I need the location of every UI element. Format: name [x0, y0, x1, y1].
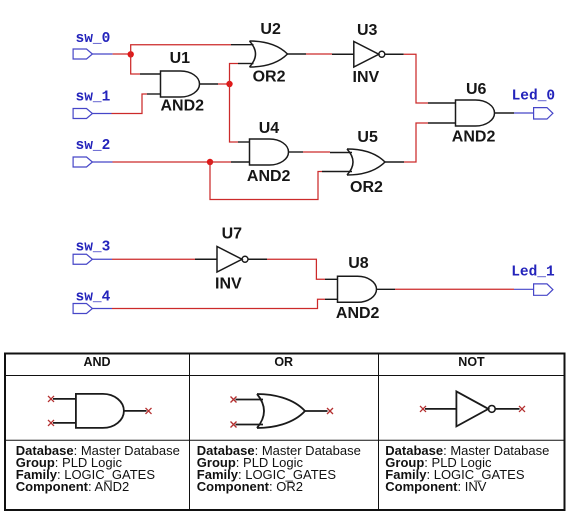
- table NOT column text: [385, 443, 549, 494]
- node J2 junction dot: [226, 81, 232, 87]
- pin U6 A stub: [428, 102, 456, 104]
- svg-text:U6: U6: [466, 81, 487, 98]
- label OR2 of U2: [253, 69, 286, 86]
- gate U5 OR2 body: [347, 149, 385, 175]
- svg-text:sw_2: sw_2: [76, 138, 111, 154]
- svg-text:OR: OR: [274, 355, 293, 369]
- label AND2 of U4: [247, 168, 291, 185]
- gate U3 INV body: [354, 42, 385, 68]
- table OR pin X marks: [231, 397, 334, 428]
- output connector Led_0: [534, 108, 553, 119]
- pin U2 A stub: [231, 44, 254, 46]
- label AND2 of U1: [161, 97, 205, 114]
- label INV of U3: [353, 69, 380, 86]
- svg-text:sw_4: sw_4: [76, 289, 111, 305]
- wire sw_2 to node J3: [113, 161, 211, 163]
- gate U1 AND2 body: [161, 71, 200, 97]
- label AND2 of U6: [452, 128, 496, 145]
- svg-text:AND2: AND2: [247, 168, 291, 185]
- svg-text:sw_0: sw_0: [76, 31, 111, 47]
- table NOT pin X marks: [420, 406, 525, 412]
- gate U8 AND2 body: [338, 276, 377, 302]
- pin U8 A stub: [325, 278, 338, 280]
- svg-text:Led_0: Led_0: [512, 88, 556, 104]
- wire J3 to U4 input B: [210, 161, 231, 163]
- pin U4 output stub: [289, 151, 304, 153]
- label INV of U7: [215, 276, 242, 293]
- input connector sw_4: [73, 304, 112, 314]
- pin U6 B stub: [428, 122, 456, 124]
- pin U4 B stub: [231, 161, 250, 163]
- wire J1 to U2 input A: [131, 45, 231, 55]
- input connector sw_0: [73, 49, 113, 59]
- label OR2 of U5: [350, 179, 383, 196]
- pin Led_1 connector stub: [514, 288, 534, 290]
- wire U4 to U5 input A: [303, 151, 330, 153]
- table column divider 1: [189, 354, 191, 511]
- node J1 junction dot: [128, 51, 134, 57]
- pin U5 output stub: [385, 161, 404, 163]
- pin U3 output stub: [385, 53, 404, 55]
- label U3: [357, 22, 378, 39]
- table symbol row divider: [5, 439, 565, 441]
- pin U1 output stub: [200, 83, 219, 85]
- wire J3 to U5 input B: [210, 162, 322, 200]
- svg-text:sw_3: sw_3: [76, 239, 111, 255]
- table AND pin X marks: [48, 396, 152, 426]
- svg-text:Component: AND2: Component: AND2: [16, 479, 129, 494]
- header label OR: [274, 355, 293, 369]
- table outer border: [5, 354, 565, 511]
- wire J1 to U1 input A: [131, 54, 140, 74]
- table column divider 2: [378, 354, 380, 511]
- wire sw_3 to U7: [112, 258, 195, 260]
- pin U3 input stub: [332, 53, 354, 55]
- input connector sw_1: [73, 109, 111, 119]
- label U1: [170, 50, 191, 67]
- pin U6 output stub: [495, 112, 515, 114]
- label Led_1: [511, 265, 555, 281]
- wire U2 to U3: [306, 53, 332, 55]
- svg-text:sw_1: sw_1: [76, 89, 111, 105]
- pin U5 A stub: [330, 152, 352, 154]
- wire J2 to U2 input B: [230, 64, 239, 85]
- svg-text:U2: U2: [260, 21, 281, 38]
- gate U4 AND2 body: [250, 139, 289, 165]
- pin U1 B stub: [147, 93, 161, 95]
- svg-text:AND2: AND2: [336, 305, 380, 322]
- pin Led_0 connector stub: [514, 112, 534, 114]
- svg-text:INV: INV: [353, 69, 380, 86]
- table AND symbol: [53, 394, 147, 428]
- table header divider: [5, 375, 565, 377]
- svg-text:U5: U5: [357, 129, 378, 146]
- pin U5 B stub: [322, 171, 352, 173]
- svg-text:INV: INV: [215, 276, 242, 293]
- svg-text:NOT: NOT: [458, 355, 485, 369]
- label U7: [222, 226, 243, 243]
- input connector sw_3: [73, 254, 112, 264]
- table NOT symbol: [425, 391, 520, 426]
- label Led_0: [512, 88, 556, 104]
- label U8: [348, 255, 369, 272]
- wire U7 to U8 input A: [267, 259, 325, 279]
- label sw_4: [76, 289, 111, 305]
- label sw_2: [76, 138, 111, 154]
- svg-text:U4: U4: [259, 120, 280, 137]
- svg-text:Component: OR2: Component: OR2: [197, 479, 303, 494]
- pin U2 output stub: [288, 53, 307, 55]
- svg-text:U3: U3: [357, 22, 378, 39]
- svg-text:U8: U8: [348, 255, 369, 272]
- pin U7 output stub: [248, 258, 267, 260]
- label sw_3: [76, 239, 111, 255]
- pin U8 output stub: [377, 288, 396, 290]
- node J3 junction dot: [207, 159, 213, 165]
- svg-text:OR2: OR2: [253, 69, 286, 86]
- gate U2 OR2 body: [250, 41, 288, 67]
- label U6: [466, 81, 487, 98]
- wire U8 to Led_1: [395, 288, 514, 290]
- svg-text:U1: U1: [170, 50, 191, 67]
- label U5: [357, 129, 378, 146]
- label U4: [259, 120, 280, 137]
- svg-text:OR2: OR2: [350, 179, 383, 196]
- wire sw_4 to U8 input B: [112, 299, 325, 308]
- header label NOT: [458, 355, 485, 369]
- gate U7 INV body: [217, 247, 248, 273]
- svg-text:Led_1: Led_1: [511, 265, 555, 281]
- wire sw_0 to node J1: [113, 53, 131, 55]
- table AND column text: [16, 443, 180, 494]
- label sw_0: [76, 31, 111, 47]
- label sw_1: [76, 89, 111, 105]
- header label AND: [83, 355, 110, 369]
- pin U7 input stub: [195, 258, 217, 260]
- table OR column text: [197, 443, 361, 494]
- label AND2 of U8: [336, 305, 380, 322]
- svg-text:U7: U7: [222, 226, 243, 243]
- svg-text:AND2: AND2: [452, 128, 496, 145]
- svg-text:AND2: AND2: [161, 97, 205, 114]
- input connector sw_2: [73, 157, 112, 167]
- pin U4 A stub: [238, 141, 250, 143]
- label U2: [260, 21, 281, 38]
- gate U6 AND2 body: [456, 100, 495, 126]
- output connector Led_1: [534, 284, 553, 295]
- wire U1 out to node J2: [218, 83, 230, 85]
- table OR symbol: [236, 394, 328, 428]
- wire J2 to U4 input A: [230, 84, 239, 142]
- pin U2 B stub: [238, 63, 254, 65]
- svg-text:Component: INV: Component: INV: [385, 479, 486, 494]
- wire U5 to U6 input B: [404, 123, 428, 162]
- wire sw_1 to U1 input B: [112, 94, 148, 114]
- pin U8 B stub: [325, 298, 338, 300]
- pin U1 A stub: [140, 73, 161, 75]
- wire U3 to U6 input A: [404, 54, 428, 103]
- svg-text:AND: AND: [83, 355, 110, 369]
